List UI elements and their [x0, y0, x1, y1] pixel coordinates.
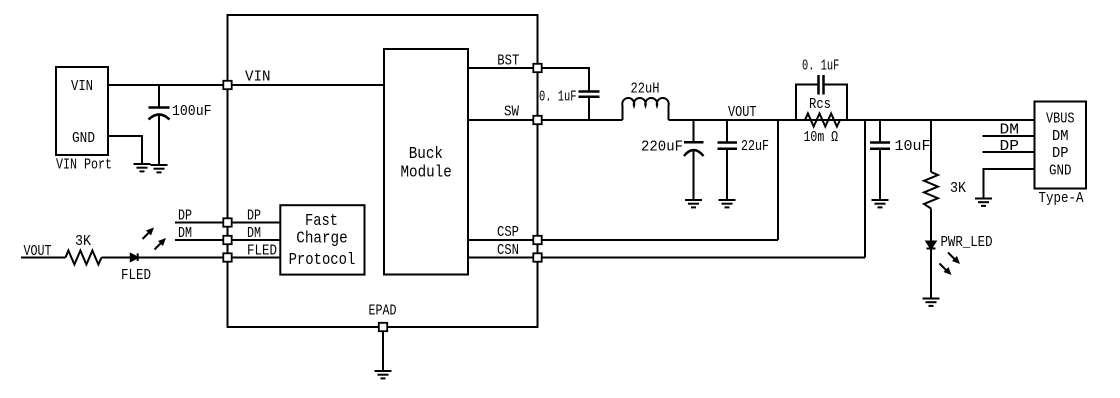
ground (EPAD): [375, 371, 392, 378]
capacitor C3 220uF: [684, 120, 704, 200]
wire EPAD to ground: [382, 327, 384, 371]
svg-text:VIN: VIN: [71, 78, 93, 95]
svg-text:VBUS: VBUS: [1046, 111, 1075, 128]
svg-text:FLED: FLED: [121, 267, 151, 284]
svg-text:VIN: VIN: [245, 69, 271, 86]
LED PWR_LED D2: [927, 242, 936, 249]
wire CSP: [468, 120, 778, 240]
svg-text:Buck: Buck: [409, 145, 443, 164]
pin BST: [533, 64, 541, 72]
svg-text:220uF: 220uF: [641, 139, 683, 156]
resistor Rcs loop wires: [796, 85, 847, 121]
inductor L1 22uH: [622, 98, 668, 120]
wire 3K branch: [930, 120, 932, 172]
capacitor C6 10uF: [870, 120, 890, 200]
wire CSN: [468, 120, 865, 258]
ground (C6): [872, 200, 889, 207]
svg-text:Module: Module: [401, 164, 452, 183]
pin SW: [533, 116, 541, 124]
wire DP stub (Type-A): [983, 151, 1035, 153]
svg-text:SW: SW: [504, 104, 519, 121]
svg-text:PWR_LED: PWR_LED: [941, 234, 993, 251]
wire resistor to diode: [102, 257, 131, 259]
svg-text:Protocol: Protocol: [289, 251, 356, 270]
LED arrow 1 (PWR_LED): [948, 253, 960, 265]
LED arrow 2 (FLED): [155, 238, 167, 250]
svg-text:VOUT: VOUT: [728, 104, 757, 121]
svg-text:VIN Port: VIN Port: [56, 157, 112, 174]
wire VOUT rail: [669, 119, 1035, 121]
capacitor C5 0.1uF across Rcs: [819, 75, 824, 95]
svg-text:Fast: Fast: [305, 212, 338, 231]
wire VOUT to resistor: [21, 257, 66, 259]
wire DM stub to pin: [175, 239, 280, 241]
svg-text:DP: DP: [178, 208, 192, 225]
wire GND (Type-A): [984, 169, 1035, 199]
svg-text:Rcs: Rcs: [809, 96, 831, 113]
Fast Charge Protocol block: [280, 205, 364, 274]
ground (Type-A): [975, 199, 992, 206]
wire DM stub (Type-A): [983, 135, 1035, 137]
capacitor C4 22uF: [718, 120, 738, 200]
Buck Module block: [384, 49, 468, 275]
svg-text:3K: 3K: [75, 233, 91, 250]
svg-text:0. 1uF: 0. 1uF: [539, 88, 577, 105]
wire VIN net: [108, 84, 384, 86]
svg-text:Charge: Charge: [296, 230, 347, 249]
wire BST to bootstrap cap: [468, 68, 589, 91]
svg-text:DP: DP: [1000, 138, 1020, 155]
pin DP: [223, 218, 231, 226]
capacitor C2 0.1uF bootstrap: [579, 92, 600, 121]
svg-text:100uF: 100uF: [172, 103, 212, 120]
svg-text:DM: DM: [178, 225, 192, 242]
resistor R1 3K: [66, 251, 102, 265]
wire FLED to pin: [138, 257, 280, 259]
pin CSN: [533, 253, 541, 261]
resistor Rcs: [805, 114, 840, 127]
svg-text:DM: DM: [1000, 122, 1020, 139]
wire DP stub to pin: [175, 222, 280, 224]
Type-A connector J2: [1035, 102, 1087, 189]
ground (VIN Port GND): [134, 164, 151, 171]
svg-text:DM: DM: [247, 225, 261, 242]
ground (C3): [685, 200, 702, 207]
svg-text:BST: BST: [497, 53, 519, 70]
pin CSP: [533, 236, 541, 244]
svg-text:CSP: CSP: [497, 224, 519, 241]
LED arrow 2 (PWR_LED): [940, 264, 952, 276]
svg-text:DM: DM: [1052, 128, 1069, 145]
pin VIN: [223, 81, 231, 89]
pin DM: [223, 236, 231, 244]
pin EPAD: [379, 323, 387, 331]
capacitor C1 100uF: [149, 85, 170, 165]
diode FLED D1: [131, 253, 138, 261]
svg-text:DP: DP: [1052, 145, 1069, 162]
wire SW to inductor: [468, 119, 623, 121]
svg-text:10uF: 10uF: [895, 138, 931, 155]
resistor R2 3K: [924, 172, 938, 209]
wire GND of VIN Port: [108, 136, 142, 164]
svg-text:GND: GND: [1049, 163, 1072, 180]
ground (C1): [151, 165, 168, 172]
svg-text:22uH: 22uH: [631, 81, 660, 98]
svg-text:GND: GND: [72, 130, 95, 147]
svg-text:Type-A: Type-A: [1039, 190, 1084, 207]
svg-text:10m Ω: 10m Ω: [804, 129, 839, 146]
svg-text:CSN: CSN: [497, 242, 519, 259]
pin FLED: [223, 253, 231, 261]
wire LED to ground: [930, 249, 932, 299]
svg-text:22uF: 22uF: [741, 138, 769, 155]
ground (C4): [719, 200, 736, 207]
VIN Port connector J1: [56, 67, 108, 155]
IC outline U1: [228, 15, 538, 327]
ground (PWR_LED): [923, 299, 940, 306]
LED arrow 1 (FLED): [143, 228, 155, 240]
svg-text:EPAD: EPAD: [369, 303, 397, 320]
wire resistor to LED: [930, 209, 932, 242]
svg-text:0. 1uF: 0. 1uF: [802, 58, 839, 75]
svg-text:DP: DP: [247, 208, 261, 225]
svg-text:3K: 3K: [950, 180, 966, 197]
